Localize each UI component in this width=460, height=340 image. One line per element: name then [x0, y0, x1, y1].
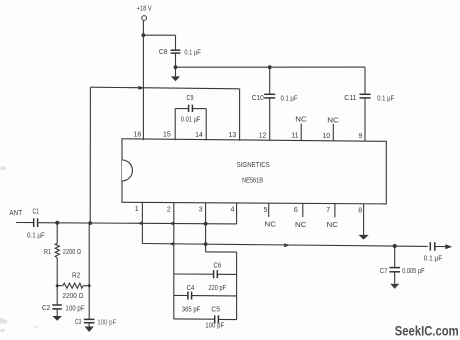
- svg-text:C11: C11: [344, 95, 356, 102]
- svg-text:100 pF: 100 pF: [97, 319, 116, 326]
- svg-text:NC: NC: [327, 117, 339, 124]
- svg-text:NC: NC: [295, 222, 307, 229]
- svg-text:0.1 µF: 0.1 µF: [184, 49, 200, 56]
- svg-text:8: 8: [358, 207, 362, 214]
- svg-text:12: 12: [259, 132, 267, 139]
- svg-text:1: 1: [135, 206, 139, 213]
- svg-text:13: 13: [229, 132, 237, 139]
- svg-text:C6: C6: [213, 263, 221, 270]
- svg-text:9: 9: [359, 133, 363, 140]
- svg-text:14: 14: [195, 132, 203, 139]
- svg-text:0.1 µF: 0.1 µF: [27, 232, 45, 239]
- svg-text:365 pF: 365 pF: [182, 306, 201, 313]
- svg-text:0.1 µF: 0.1 µF: [281, 95, 298, 102]
- svg-text:C8: C8: [159, 49, 168, 56]
- svg-text:ANT: ANT: [9, 210, 22, 217]
- svg-text:7: 7: [326, 207, 330, 214]
- svg-text:NE561B: NE561B: [242, 177, 263, 184]
- svg-text:2200 Ω: 2200 Ω: [63, 249, 81, 256]
- svg-text:+18 V: +18 V: [137, 5, 152, 12]
- svg-text:C3: C3: [75, 319, 81, 326]
- svg-text:5: 5: [264, 207, 268, 214]
- svg-text:3: 3: [199, 207, 203, 214]
- svg-text:100 pF: 100 pF: [205, 323, 224, 330]
- svg-text:100 pF: 100 pF: [65, 305, 84, 312]
- svg-text:SeekIC.com: SeekIC.com: [395, 323, 459, 339]
- svg-text:C1: C1: [33, 209, 40, 216]
- svg-text:0.1 µF: 0.1 µF: [377, 95, 394, 102]
- svg-text:C10: C10: [252, 95, 264, 102]
- svg-text:R2: R2: [72, 272, 80, 279]
- svg-text:C9: C9: [187, 95, 194, 102]
- svg-text:11: 11: [291, 133, 298, 140]
- svg-text:2200 Ω: 2200 Ω: [63, 293, 84, 300]
- svg-text:220 pF: 220 pF: [209, 285, 227, 292]
- svg-text:10: 10: [322, 133, 330, 140]
- svg-text:C2: C2: [42, 305, 50, 312]
- svg-text:0.1 µF: 0.1 µF: [424, 256, 443, 263]
- svg-text:SIGNETICS: SIGNETICS: [237, 162, 270, 169]
- svg-text:C4: C4: [187, 285, 195, 292]
- svg-text:NC: NC: [265, 222, 277, 229]
- svg-text:NC: NC: [295, 117, 307, 124]
- svg-text:15: 15: [163, 132, 171, 139]
- svg-text:0.005 µF: 0.005 µF: [402, 268, 424, 275]
- svg-text:6: 6: [294, 207, 298, 214]
- svg-text:C7: C7: [380, 268, 388, 275]
- svg-text:C5: C5: [211, 306, 220, 313]
- svg-text:16: 16: [134, 131, 142, 138]
- svg-text:0.01 µF: 0.01 µF: [181, 117, 201, 124]
- svg-text:2: 2: [167, 206, 171, 213]
- svg-text:NC: NC: [327, 222, 339, 229]
- svg-text:4: 4: [231, 207, 235, 214]
- svg-text:R1: R1: [44, 249, 51, 256]
